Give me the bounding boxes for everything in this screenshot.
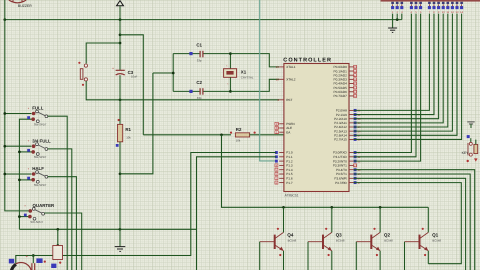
switch 3/4 FULL (SW-SPDT) (27, 138, 51, 159)
wire bottom left corner (16, 256, 35, 264)
svg-text:31: 31 (276, 130, 280, 134)
wire E to P3.2 (354, 14, 421, 162)
wire teal P1.2 (260, 0, 277, 161)
wire EA net (143, 133, 231, 136)
wire R1 node to caps bus (120, 73, 153, 174)
svg-text:P3.7/RD: P3.7/RD (335, 181, 347, 185)
svg-text:BC548: BC548 (288, 239, 297, 243)
wire HALF pole down (48, 177, 77, 270)
svg-text:C1: C1 (196, 42, 202, 47)
resistor R3 right edge (474, 140, 478, 162)
wire Q3 emitter (331, 251, 333, 270)
wire QUARTER pole down (44, 213, 81, 270)
svg-text:18: 18 (276, 78, 280, 82)
svg-text:Q4: Q4 (287, 233, 294, 238)
transistor Q1 BC548 (405, 228, 442, 256)
wire VCC top rail y=19.6 (3, 18, 401, 21)
svg-text:P2.7/A15: P2.7/A15 (334, 138, 347, 142)
wire button to RST node (86, 81, 279, 101)
wire Q4 emitter (283, 251, 285, 270)
resistor R2 (230, 127, 256, 142)
svg-text:CONTROLLER: CONTROLLER (283, 58, 332, 64)
wire caps bus joint (153, 72, 173, 74)
svg-text:BC548: BC548 (432, 239, 441, 243)
svg-text:R1: R1 (125, 127, 131, 132)
wire Q3 collector (331, 207, 333, 232)
transistor Q2 BC548 (356, 228, 393, 256)
wire C1C2 left bus (172, 54, 175, 92)
flag label left (9, 259, 14, 264)
transistor Q4 BC548 (260, 228, 297, 256)
wire RW to P3.1 (354, 14, 416, 157)
svg-text:C2: C2 (196, 80, 202, 85)
ground main (115, 247, 126, 252)
battery B1 (51, 229, 62, 268)
transistor Q3 BC548 (308, 228, 345, 256)
svg-text:+: + (112, 67, 114, 71)
svg-text:Q3: Q3 (336, 233, 343, 238)
wire RS to P3.0 (354, 14, 412, 153)
svg-text:19: 19 (276, 65, 280, 69)
svg-text:HALF: HALF (32, 166, 44, 171)
wire Q4 collector (283, 207, 285, 232)
switch HALF (SW-SPDT) (27, 166, 48, 187)
wire Q1 base (404, 242, 406, 270)
svg-text:BC548: BC548 (384, 239, 393, 243)
svg-text:SW-SPDT: SW-SPDT (30, 220, 43, 224)
wire R1 bottom to ground (119, 142, 122, 247)
buzzer BZ1 (9, 0, 32, 8)
wire EA node to collector rail (222, 135, 429, 209)
wire LCD data D0-D7 to P2 (354, 14, 462, 140)
wire Q4 base (259, 242, 261, 270)
crystal X1 (224, 52, 254, 93)
svg-text:XTAL2: XTAL2 (286, 78, 296, 82)
wire VCC to EA branch (120, 35, 143, 135)
wire C3 bottom to R1 (119, 75, 121, 124)
motor M1 (11, 254, 32, 270)
ground small right edge (467, 122, 474, 128)
svg-text:P0.7/AD7: P0.7/AD7 (334, 94, 348, 98)
wire Q2 base (355, 242, 357, 270)
svg-text:SW-SPDT: SW-SPDT (34, 123, 47, 127)
LCD LM016L bottom edge with pins (381, 1, 480, 14)
wire Q1 emitter (427, 251, 429, 264)
svg-text:BC548: BC548 (336, 239, 345, 243)
svg-text:SW-SPDT: SW-SPDT (34, 183, 47, 187)
capacitor C1 (173, 42, 230, 62)
wire ground rail y=229.3 (19, 228, 196, 231)
svg-text:10k: 10k (236, 139, 241, 143)
wire P3.7 to Q1 emitter (354, 183, 462, 264)
svg-text:BUZZER: BUZZER (18, 4, 32, 8)
power terminal VCC (117, 1, 124, 6)
wire Q2 emitter (379, 251, 381, 270)
capacitor C2 (173, 80, 230, 100)
wire VCC to button branch (86, 43, 120, 64)
wire Q1 collector (427, 207, 429, 232)
svg-text:R2: R2 (236, 127, 242, 132)
wire LCD VSS to ground (392, 14, 394, 28)
wire P3.4 net (354, 170, 475, 270)
svg-text:X1: X1 (241, 69, 247, 74)
svg-text:XTAL1: XTAL1 (286, 65, 296, 69)
svg-text:10k: 10k (126, 136, 131, 140)
capacitor C3 (112, 67, 138, 79)
wire 3/4 pole down (48, 149, 72, 270)
button KEY (462, 135, 473, 162)
svg-text:FULL: FULL (32, 106, 44, 111)
wire Q2 collector (379, 207, 381, 232)
wire LCD VEE (401, 14, 403, 20)
svg-text:SW-SPDT: SW-SPDT (34, 155, 47, 159)
switch QUARTER (SW-SPDT) (24, 203, 55, 224)
wire Q3 base (307, 242, 309, 270)
svg-text:Q1: Q1 (432, 233, 439, 238)
svg-text:KEY: KEY (462, 151, 470, 155)
svg-text:CRYSTAL: CRYSTAL (241, 76, 254, 80)
wire P1.1 net to rail (197, 157, 277, 270)
ground LCD (388, 28, 397, 32)
svg-text:3/4 FULL: 3/4 FULL (32, 138, 51, 143)
wire P3.6 net (354, 178, 466, 270)
svg-text:AT89C51: AT89C51 (285, 194, 299, 198)
wire R2 to EA pin (250, 134, 284, 136)
resistor R1 (116, 119, 132, 147)
wire FULL pole down (48, 116, 68, 270)
switch FULL (SW-SPDT) (27, 106, 48, 127)
wire XTAL1 route (230, 54, 279, 67)
wire bus x=19.4 (18, 119, 31, 229)
button RESET (78, 62, 87, 86)
capacitor bottom 1 (32, 256, 46, 270)
wire VCC column x=120 (119, 6, 122, 70)
wire XTAL2 route (230, 79, 279, 91)
wire left bus x=4.8 (3, 0, 31, 211)
svg-text:33p: 33p (197, 58, 202, 62)
svg-text:RST: RST (286, 98, 292, 102)
svg-text:10uF: 10uF (131, 75, 138, 79)
wire P3.5 net (354, 174, 471, 270)
svg-text:Q2: Q2 (384, 233, 391, 238)
wire P1.0 net to motor (32, 153, 276, 257)
svg-text:33p: 33p (197, 96, 202, 100)
svg-text:P1.7: P1.7 (286, 181, 293, 185)
wire LCD VDD (396, 14, 398, 20)
op-amp U1 CONTROLLER AT89C51 (275, 58, 361, 198)
svg-text:QUARTER: QUARTER (33, 203, 56, 208)
